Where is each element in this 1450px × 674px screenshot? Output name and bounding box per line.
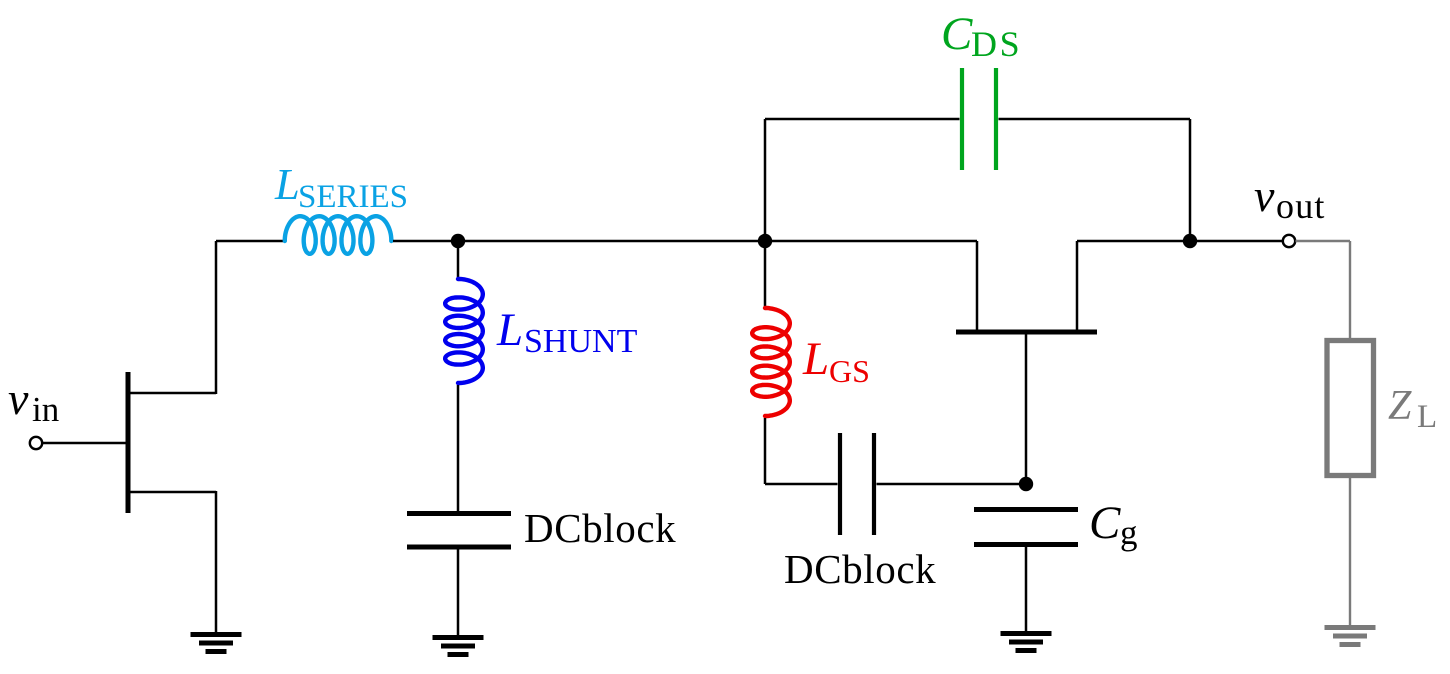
wire main rail to L_SERIES (216, 240, 284, 243)
wire node B to node A (458, 240, 765, 243)
svg-text:DCblock: DCblock (784, 546, 936, 592)
ground below Z_L (gray) (1325, 628, 1376, 645)
inductor L_GS (752, 308, 790, 416)
node A junction dot (758, 234, 772, 248)
wire Q2 drain down (976, 241, 979, 333)
inductor L_SERIES (285, 216, 392, 254)
wire C_g to ground (1025, 547, 1028, 631)
wire Q1 source stub (128, 491, 216, 494)
svg-text:v: v (8, 373, 29, 424)
svg-text:GS: GS (829, 353, 870, 389)
svg-text:g: g (1120, 513, 1138, 552)
wire node A up to top branch (764, 119, 767, 241)
capacitor DCblock (shunt) (407, 514, 511, 548)
svg-text:v: v (1254, 170, 1275, 221)
svg-text:C: C (1089, 497, 1121, 549)
wire node A down to L_GS (764, 241, 767, 309)
svg-text:L: L (274, 159, 300, 209)
svg-text:L: L (496, 304, 523, 356)
ground below C_g (1001, 634, 1052, 651)
wire L_SHUNT to DC block capacitor (457, 385, 460, 512)
wire top branch left segment (765, 118, 960, 121)
svg-text:C: C (941, 8, 973, 60)
svg-text:SHUNT: SHUNT (524, 323, 638, 360)
output terminal (open circle) (1283, 235, 1295, 247)
output node junction dot (1183, 234, 1197, 248)
wire Q2 gate down to node C (1025, 333, 1028, 484)
wire Q2 source to output node (1077, 240, 1190, 243)
input terminal (open circle) (30, 437, 42, 449)
svg-text:L: L (802, 333, 829, 385)
svg-text:Z: Z (1388, 383, 1412, 429)
capacitor C_DS (962, 68, 996, 170)
wire node A to Q2 drain corner (765, 240, 977, 243)
wire down to load Z_L (1349, 241, 1351, 341)
wire DC block capacitor 2 to node C (877, 483, 1027, 486)
wire load Z_L to ground (1349, 476, 1351, 626)
transistor Q2 gate bar (956, 330, 1097, 335)
wire Q1 drain stub (128, 392, 216, 395)
wire L_GS down to corner (764, 418, 767, 484)
wire Q1 source down to ground (215, 491, 218, 632)
transistor Q1 gate bar (126, 372, 131, 513)
svg-text:DS: DS (971, 24, 1022, 64)
wire corner to DC block capacitor 2 (765, 483, 838, 486)
inductor L_SHUNT (445, 279, 483, 383)
wire v_out to load (gray) (1296, 240, 1351, 242)
wire top branch right segment (999, 118, 1191, 121)
ground below shunt DC block (433, 638, 484, 655)
wire Q2 source up (1076, 241, 1079, 333)
wire L_SERIES to node B (393, 240, 458, 243)
wire Q1 drain up to main rail (215, 241, 218, 394)
impedance Z_L box (1327, 341, 1374, 476)
wire top branch down to output node (1189, 119, 1192, 241)
wire gate lead from v_in to Q1 (43, 442, 129, 445)
svg-text:L: L (1417, 399, 1437, 435)
svg-text:SERIES: SERIES (298, 179, 408, 215)
capacitor DCblock (gate) (840, 433, 874, 535)
svg-text:out: out (1276, 186, 1326, 226)
node C junction dot (1019, 477, 1033, 491)
wire output node to v_out terminal (1190, 240, 1283, 243)
svg-text:in: in (32, 390, 59, 429)
wire DC block capacitor to ground (457, 549, 460, 635)
capacitor C_g (974, 510, 1078, 545)
svg-text:DCblock: DCblock (524, 505, 676, 551)
wire node B down to L_SHUNT (457, 241, 460, 280)
node B junction dot (451, 234, 465, 248)
ground below Q1 (191, 635, 242, 652)
